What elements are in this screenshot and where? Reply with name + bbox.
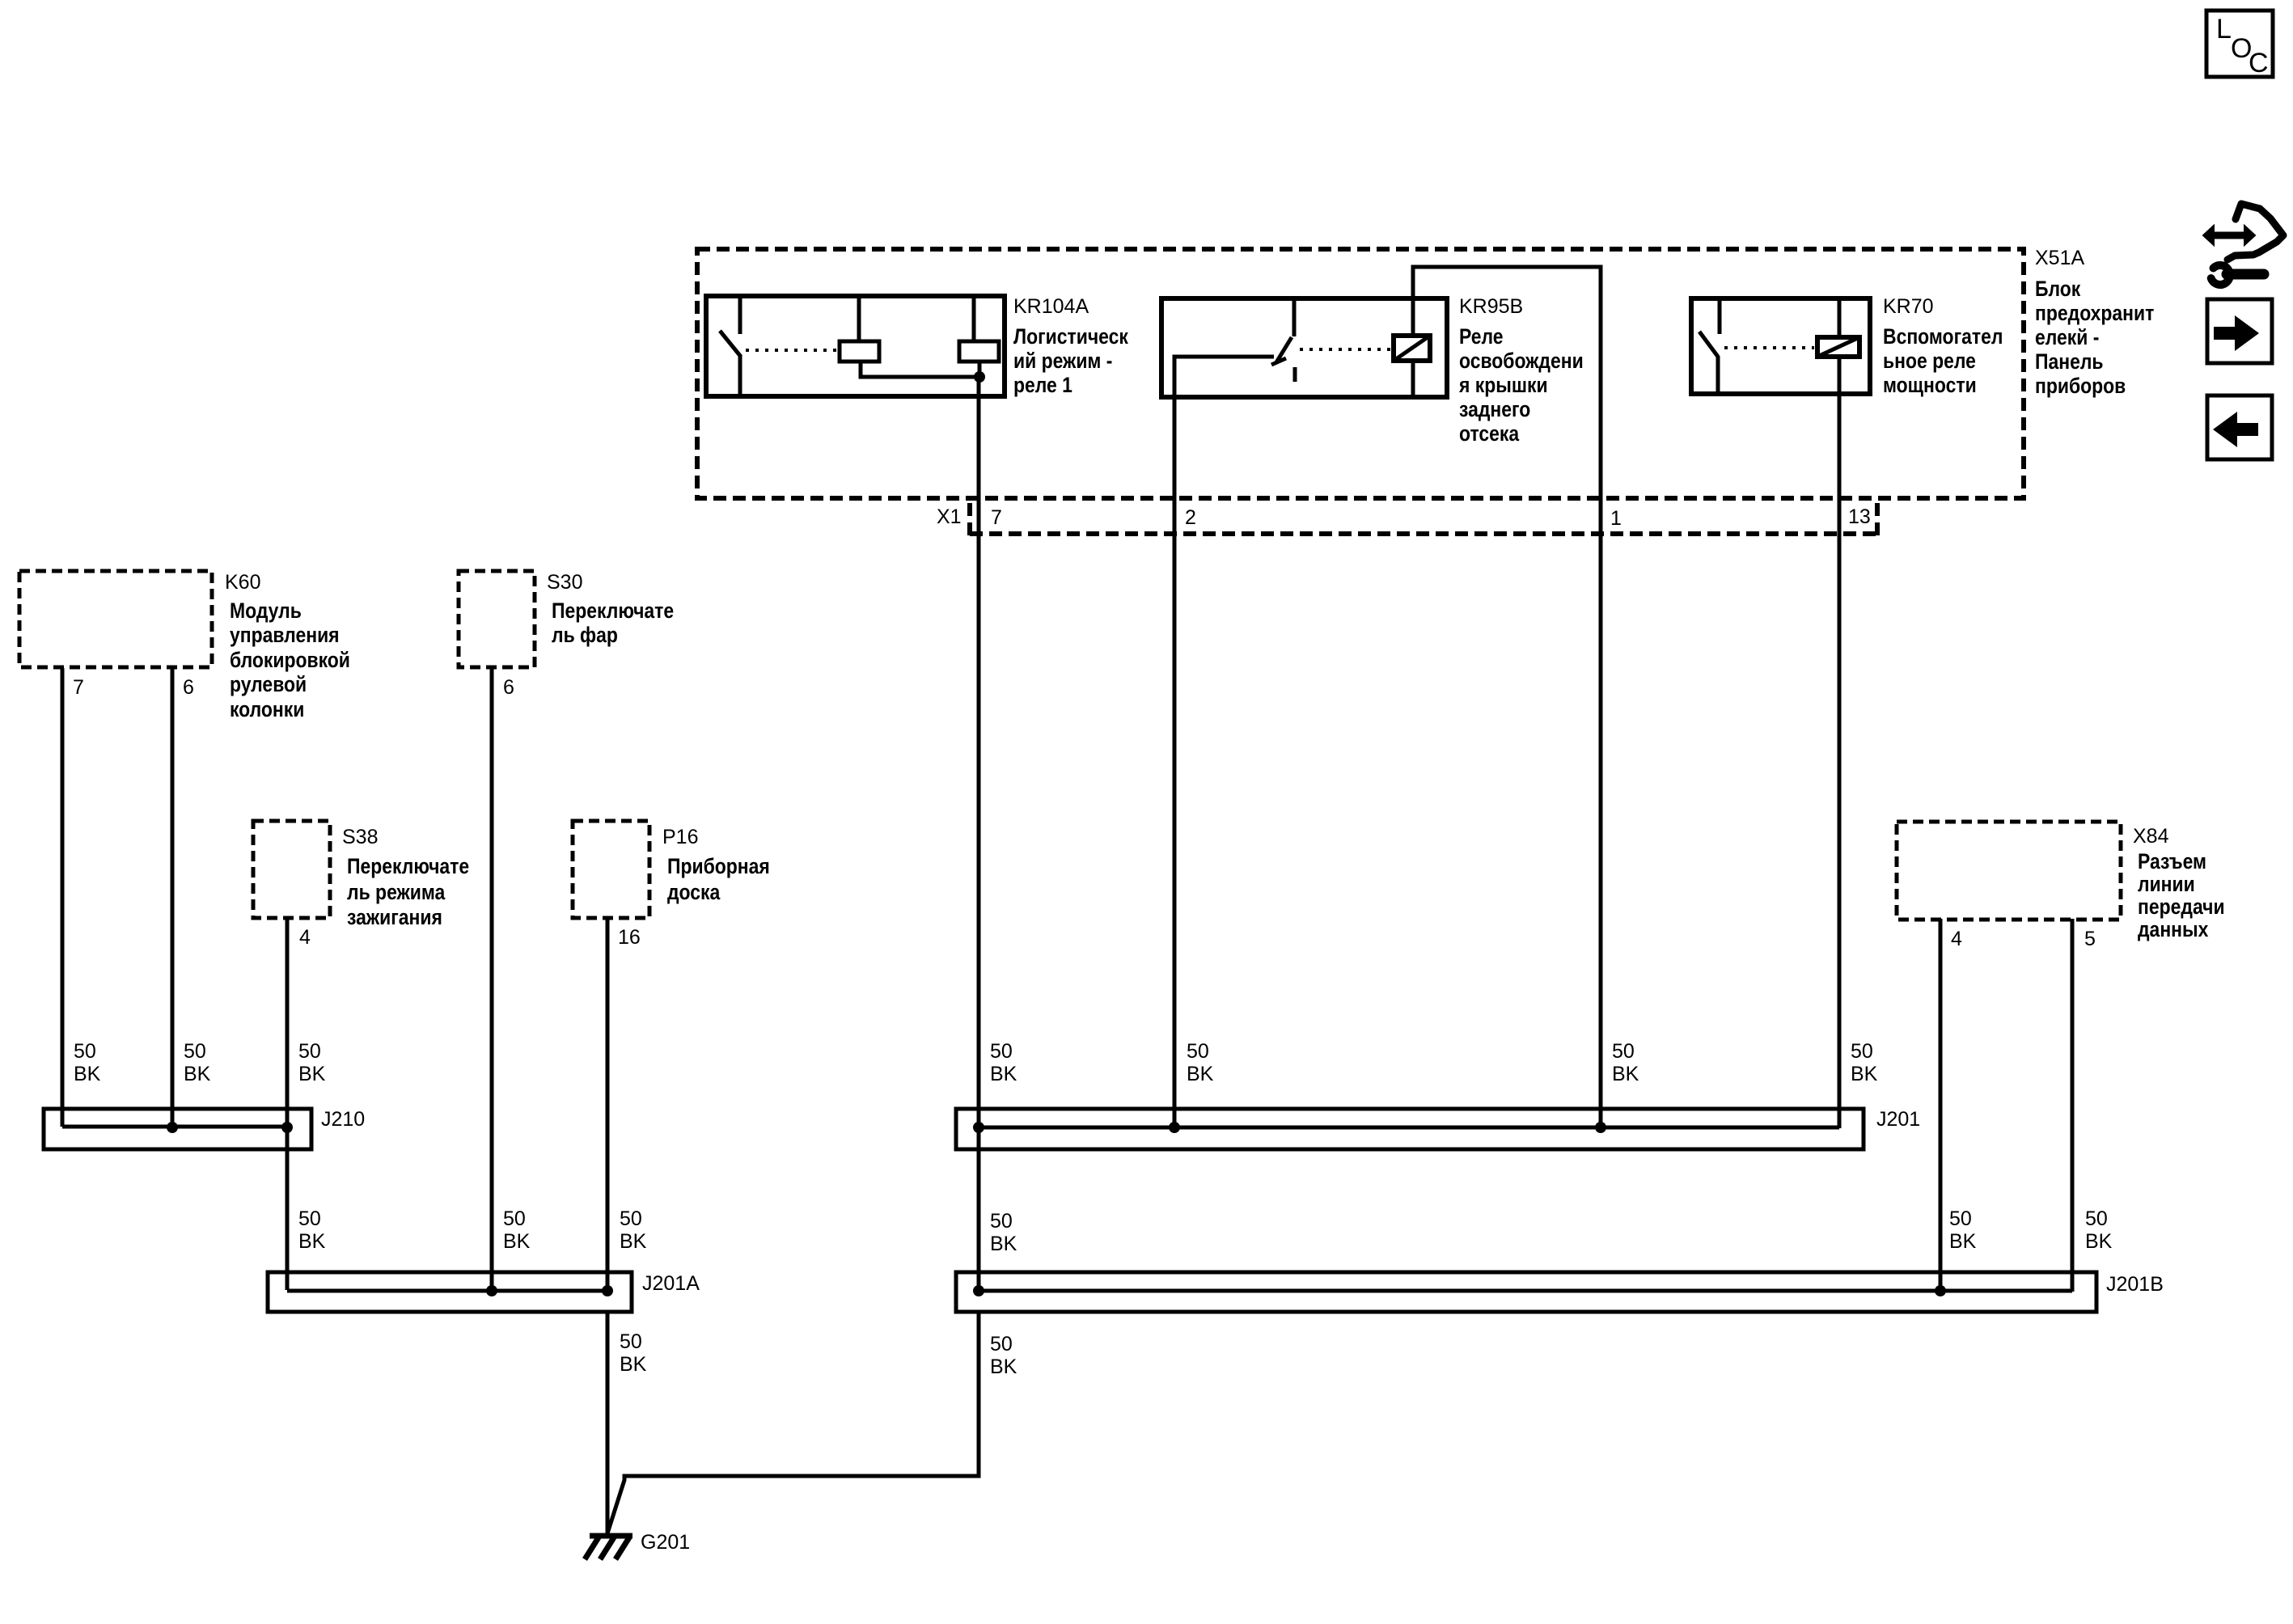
svg-text:данных: данных bbox=[2138, 917, 2208, 941]
svg-text:50: 50 bbox=[1851, 1040, 1873, 1063]
wire X84 pin 4 to J201B bbox=[1939, 919, 1943, 1292]
svg-text:BK: BK bbox=[990, 1063, 1017, 1085]
J210 label bbox=[321, 1108, 365, 1131]
svg-text:BK: BK bbox=[620, 1230, 647, 1253]
junction dot J201 KR104A bbox=[973, 1122, 984, 1133]
junction dot J201 pin1 bbox=[1595, 1122, 1606, 1133]
svg-text:отсека: отсека bbox=[1459, 421, 1520, 446]
svg-text:Переключате: Переключате bbox=[552, 598, 674, 623]
svg-text:4: 4 bbox=[1951, 928, 1962, 950]
wire K60 pin 6 to J210 bbox=[171, 668, 175, 1128]
wire label 50 BK (S38 above J201A) bbox=[298, 1207, 326, 1253]
svg-text:S38: S38 bbox=[342, 826, 378, 848]
P16 pin 16 number bbox=[618, 926, 641, 949]
wire P16 pin 16 to J201A bbox=[606, 919, 610, 1292]
svg-text:J201: J201 bbox=[1876, 1108, 1920, 1131]
wire KR95B coil over-route to pin 1 bbox=[1413, 267, 1601, 1128]
svg-text:50: 50 bbox=[620, 1330, 642, 1353]
P16 label bbox=[662, 826, 770, 904]
pin 1 label bbox=[1610, 507, 1622, 530]
svg-text:X1: X1 bbox=[937, 505, 962, 528]
X84 pin 5 number bbox=[2084, 928, 2096, 950]
svg-text:BK: BK bbox=[298, 1063, 326, 1085]
splice bus J201 bbox=[956, 1109, 1864, 1149]
svg-text:Вспомогател: Вспомогател bbox=[1883, 324, 2003, 349]
svg-text:рулевой: рулевой bbox=[230, 672, 307, 696]
svg-text:50: 50 bbox=[298, 1207, 321, 1230]
svg-text:50: 50 bbox=[990, 1333, 1013, 1355]
svg-text:блокировкой: блокировкой bbox=[230, 648, 350, 672]
junction dot J210 S38 bbox=[281, 1122, 293, 1133]
svg-text:елекй -: елекй - bbox=[2035, 325, 2099, 349]
ground G201 bbox=[585, 1536, 632, 1559]
svg-text:J201B: J201B bbox=[2106, 1273, 2164, 1296]
svg-text:50: 50 bbox=[990, 1040, 1013, 1063]
K60 pin 7 number bbox=[73, 676, 84, 699]
module K60 dashed box bbox=[19, 571, 212, 667]
svg-text:я крышки: я крышки bbox=[1458, 373, 1547, 397]
junction dot J201A P16 bbox=[602, 1285, 613, 1296]
svg-text:7: 7 bbox=[991, 506, 1002, 529]
X1 connector label bbox=[937, 505, 962, 528]
svg-text:BK: BK bbox=[1851, 1063, 1878, 1085]
svg-text:BK: BK bbox=[184, 1063, 211, 1085]
svg-text:BK: BK bbox=[2085, 1230, 2113, 1253]
wire K60 pin 7 to J210 bbox=[61, 668, 65, 1127]
wire label 50 BK (pin1 above J201) bbox=[1612, 1040, 1639, 1085]
svg-text:BK: BK bbox=[298, 1230, 326, 1253]
svg-text:заднего: заднего bbox=[1459, 397, 1530, 421]
svg-text:6: 6 bbox=[503, 676, 514, 699]
S30 pin 6 number bbox=[503, 676, 514, 699]
svg-text:ль режима: ль режима bbox=[347, 880, 446, 904]
svg-text:13: 13 bbox=[1848, 505, 1871, 528]
K60 label bbox=[225, 571, 350, 721]
G201 label bbox=[641, 1531, 690, 1554]
svg-text:BK: BK bbox=[620, 1353, 647, 1376]
svg-text:J201A: J201A bbox=[642, 1272, 700, 1295]
left arrow legend box bbox=[2207, 395, 2272, 459]
relay KR104A bbox=[706, 296, 1005, 396]
instrument panel P16 dashed box bbox=[573, 821, 649, 918]
svg-text:50: 50 bbox=[298, 1040, 321, 1063]
splice bus J201B bbox=[956, 1272, 2096, 1312]
svg-text:KR104A: KR104A bbox=[1013, 295, 1089, 318]
svg-text:ьное реле: ьное реле bbox=[1883, 349, 1976, 373]
wire J201B branch to ground bbox=[607, 1310, 979, 1533]
svg-text:KR70: KR70 bbox=[1883, 295, 1934, 318]
svg-text:Панель: Панель bbox=[2035, 349, 2104, 374]
svg-text:P16: P16 bbox=[662, 826, 698, 848]
svg-text:Модуль: Модуль bbox=[230, 598, 302, 623]
svg-text:J210: J210 bbox=[321, 1108, 365, 1131]
svg-text:приборов: приборов bbox=[2035, 374, 2126, 398]
wire S30 pin 6 to J201A bbox=[490, 668, 494, 1292]
svg-text:ий режим -: ий режим - bbox=[1013, 349, 1112, 373]
svg-text:50: 50 bbox=[1949, 1207, 1972, 1230]
svg-text:50: 50 bbox=[1612, 1040, 1635, 1063]
splice bus J201A bbox=[268, 1272, 632, 1312]
connector X1 pin row dashed bracket bbox=[970, 503, 1877, 536]
svg-text:BK: BK bbox=[1612, 1063, 1639, 1085]
svg-text:L: L bbox=[2216, 14, 2232, 44]
svg-text:C: C bbox=[2249, 48, 2269, 78]
svg-text:50: 50 bbox=[503, 1207, 526, 1230]
wire label 50 BK (KR104A above J201B) bbox=[990, 1210, 1017, 1255]
KR95B label bbox=[1458, 295, 1584, 446]
svg-text:BK: BK bbox=[74, 1063, 101, 1085]
svg-text:6: 6 bbox=[183, 676, 194, 699]
svg-text:K60: K60 bbox=[225, 571, 260, 594]
svg-text:BK: BK bbox=[1949, 1230, 1977, 1253]
svg-text:ль фар: ль фар bbox=[552, 623, 618, 647]
wire S38 pin 4 through J210 to J201A bbox=[286, 919, 290, 1290]
switch S38 dashed box bbox=[253, 821, 330, 918]
svg-text:X51A: X51A bbox=[2035, 247, 2084, 269]
harness connector icon bbox=[2203, 204, 2283, 285]
relay KR95B bbox=[1161, 298, 1447, 397]
wire label 50 BK (KR70 above J201) bbox=[1851, 1040, 1878, 1085]
fuse block X51A dashed box bbox=[697, 249, 2024, 498]
wire label 50 BK (X84 pin4 above J201B) bbox=[1949, 1207, 1977, 1253]
svg-text:4: 4 bbox=[299, 926, 311, 949]
svg-text:Логистическ: Логистическ bbox=[1013, 324, 1128, 349]
wire label 50 BK (K60 pin6) bbox=[184, 1040, 211, 1085]
svg-text:2: 2 bbox=[1185, 506, 1196, 529]
wire label 50 BK (S38 above J210) bbox=[298, 1040, 326, 1085]
svg-text:1: 1 bbox=[1610, 507, 1622, 530]
svg-text:реле 1: реле 1 bbox=[1013, 373, 1072, 397]
junction dot J201 KR95B bbox=[1169, 1122, 1180, 1133]
relay KR70 bbox=[1691, 298, 1870, 394]
X84 label bbox=[2133, 825, 2225, 941]
svg-text:Приборная: Приборная bbox=[667, 854, 770, 878]
svg-text:BK: BK bbox=[503, 1230, 531, 1253]
svg-text:предохранит: предохранит bbox=[2035, 301, 2154, 325]
svg-text:зажигания: зажигания bbox=[347, 905, 442, 929]
svg-text:50: 50 bbox=[74, 1040, 96, 1063]
KR104A label bbox=[1013, 295, 1128, 397]
wire label 50 BK (S30 above J201A) bbox=[503, 1207, 531, 1253]
S30 label bbox=[547, 571, 674, 647]
wire KR104A pin 7 through X1 and J201 and J201B bbox=[977, 377, 981, 1292]
wire X84 pin 5 to J201B bbox=[2071, 919, 2075, 1292]
right arrow legend box bbox=[2207, 299, 2272, 363]
svg-text:колонки: колонки bbox=[230, 697, 304, 721]
pin 13 label bbox=[1848, 505, 1871, 528]
svg-text:KR95B: KR95B bbox=[1459, 295, 1523, 318]
KR70 label bbox=[1883, 295, 2003, 397]
pin 2 label bbox=[1185, 506, 1196, 529]
X51A label bbox=[2035, 247, 2154, 398]
wire label 50 BK (X84 pin5 above J201B) bbox=[2085, 1207, 2113, 1253]
wire label 50 BK (ground below J201A) bbox=[620, 1330, 647, 1376]
svg-text:5: 5 bbox=[2084, 928, 2096, 950]
svg-text:линии: линии bbox=[2138, 872, 2195, 896]
data link connector X84 dashed box bbox=[1897, 822, 2121, 920]
J201 label bbox=[1876, 1108, 1920, 1131]
junction dot inside KR104A bbox=[974, 371, 985, 383]
svg-text:50: 50 bbox=[1187, 1040, 1209, 1063]
svg-text:BK: BK bbox=[990, 1355, 1017, 1378]
K60 pin 6 number bbox=[183, 676, 194, 699]
junction dot J201B X84 pin4 bbox=[1935, 1285, 1946, 1296]
splice bus J210 bbox=[44, 1109, 311, 1149]
wire J201A to ground G201 bbox=[606, 1310, 610, 1535]
wire label 50 BK (KR95B above J201) bbox=[1187, 1040, 1214, 1085]
svg-text:7: 7 bbox=[73, 676, 84, 699]
svg-text:Блок: Блок bbox=[2035, 277, 2081, 301]
wire label 50 BK (K60 pin7) bbox=[74, 1040, 101, 1085]
svg-text:доска: доска bbox=[667, 880, 721, 904]
junction dot J201A S30 bbox=[486, 1285, 497, 1296]
junction dot J201B KR104A bbox=[973, 1285, 984, 1296]
junction dot J210 pin6 bbox=[167, 1122, 178, 1133]
switch S30 dashed box bbox=[459, 571, 535, 667]
X84 pin 4 number bbox=[1951, 928, 1962, 950]
wire KR95B pin 2 to J201 bbox=[1173, 395, 1177, 1128]
svg-text:Переключате: Переключате bbox=[347, 854, 469, 878]
svg-text:X84: X84 bbox=[2133, 825, 2169, 848]
J201B label bbox=[2106, 1273, 2164, 1296]
S38 label bbox=[342, 826, 469, 929]
svg-text:BK: BK bbox=[1187, 1063, 1214, 1085]
svg-text:16: 16 bbox=[618, 926, 641, 949]
svg-text:S30: S30 bbox=[547, 571, 582, 594]
svg-text:Разъем: Разъем bbox=[2138, 849, 2206, 873]
svg-text:мощности: мощности bbox=[1883, 373, 1977, 397]
LOC legend box bbox=[2206, 11, 2273, 78]
wire KR70 pin 13 to J201 bbox=[1838, 354, 1842, 1128]
wire label 50 BK (KR104A above J201) bbox=[990, 1040, 1017, 1085]
svg-text:освобождени: освобождени bbox=[1459, 349, 1584, 373]
svg-text:Реле: Реле bbox=[1459, 324, 1504, 349]
J201A label bbox=[642, 1272, 700, 1295]
svg-text:50: 50 bbox=[620, 1207, 642, 1230]
svg-text:50: 50 bbox=[990, 1210, 1013, 1233]
svg-text:50: 50 bbox=[2085, 1207, 2108, 1230]
svg-text:50: 50 bbox=[184, 1040, 206, 1063]
pin 7 label bbox=[991, 506, 1002, 529]
svg-text:G201: G201 bbox=[641, 1531, 690, 1554]
svg-text:BK: BK bbox=[990, 1233, 1017, 1255]
wire label 50 BK (P16 above J201A) bbox=[620, 1207, 647, 1253]
S38 pin 4 number bbox=[299, 926, 311, 949]
wire label 50 BK (below J201B) bbox=[990, 1333, 1017, 1378]
svg-text:передачи: передачи bbox=[2138, 894, 2225, 919]
svg-text:управления: управления bbox=[230, 623, 340, 647]
